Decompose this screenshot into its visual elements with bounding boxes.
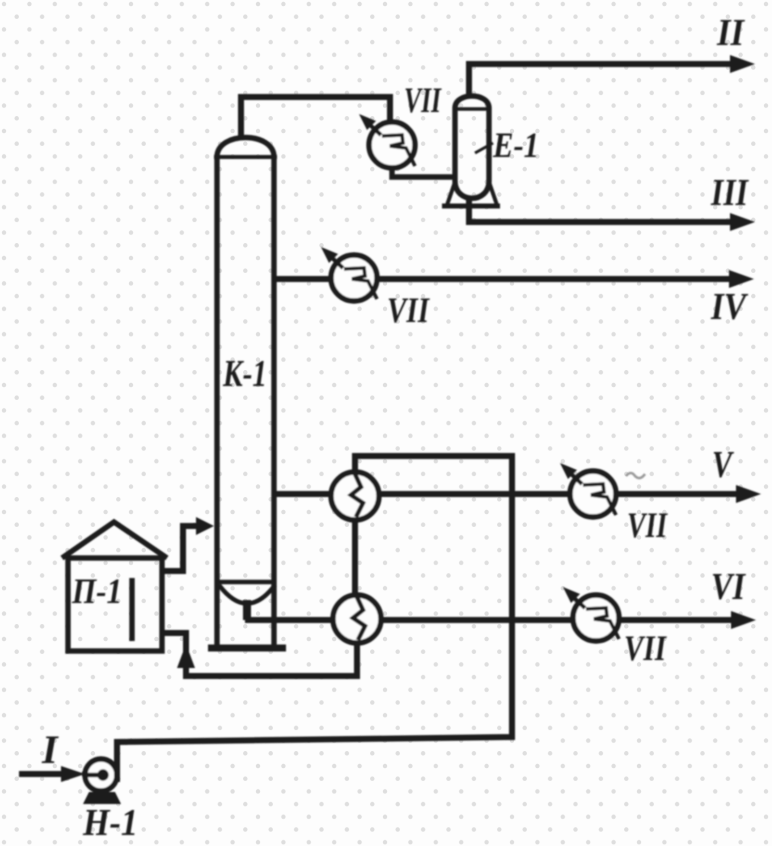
furnace П-1 bbox=[62, 522, 167, 651]
label E-1 leader bbox=[475, 143, 493, 153]
feed/draw exchanger lower bbox=[333, 595, 381, 643]
wire side draw VI from bowl stem through exchanger and cooler bbox=[245, 617, 734, 623]
wire feed: pump discharge riser and run to exchangers bbox=[117, 456, 512, 774]
svg-text:VII: VII bbox=[627, 505, 669, 545]
svg-text:V: V bbox=[712, 444, 734, 486]
wire E-1 top to product II bbox=[469, 64, 733, 98]
svg-text:IV: IV bbox=[710, 286, 748, 328]
condenser VII (overhead) bbox=[359, 114, 415, 168]
column K-1 shell bbox=[208, 138, 286, 649]
wire E-1 bottom to product III bbox=[469, 196, 733, 222]
wire furnace outlet to column inlet bbox=[164, 526, 198, 571]
svg-text:II: II bbox=[716, 12, 745, 54]
svg-text:VII: VII bbox=[404, 80, 442, 120]
svg-text:III: III bbox=[710, 172, 749, 214]
wire side draw IV from column through cooler bbox=[274, 276, 732, 282]
svg-text:К-1: К-1 bbox=[222, 353, 267, 395]
svg-text:VII: VII bbox=[387, 290, 431, 330]
arrow III bbox=[730, 213, 755, 231]
feed line I with arrow bbox=[19, 771, 64, 777]
svg-text:Е-1: Е-1 bbox=[492, 125, 539, 165]
arrow II bbox=[730, 55, 755, 73]
wire side draw V from column through exchanger and cooler bbox=[274, 491, 739, 497]
svg-text:I: I bbox=[41, 727, 59, 772]
svg-text:VI: VI bbox=[711, 566, 746, 608]
arrow into column bbox=[196, 517, 214, 535]
arrow IV bbox=[729, 270, 754, 288]
wire overhead vapor: column top to condenser VII bbox=[241, 97, 390, 140]
svg-text:П-1: П-1 bbox=[71, 571, 122, 611]
scan smudge near V bbox=[626, 473, 645, 478]
feed/draw exchanger upper bbox=[331, 472, 379, 520]
svg-text:VII: VII bbox=[624, 628, 668, 668]
cooler VII on line V bbox=[560, 463, 616, 517]
arrow VI bbox=[731, 611, 756, 629]
wire bottom exchanger to furnace inlet bbox=[164, 633, 357, 676]
arrow up into furnace line bbox=[177, 644, 195, 668]
arrow V bbox=[736, 485, 761, 503]
column bottom bowl tray bbox=[217, 582, 276, 620]
wire condenser VII outlet to drum E-1 bbox=[392, 167, 454, 177]
svg-text:Н-1: Н-1 bbox=[82, 802, 138, 844]
wire between exchangers bbox=[352, 518, 358, 597]
cooler VII on line IV bbox=[321, 247, 377, 301]
pump H-1 bbox=[83, 741, 121, 804]
cooler VII on line VI bbox=[563, 587, 619, 641]
drum E-1 bbox=[442, 96, 500, 206]
